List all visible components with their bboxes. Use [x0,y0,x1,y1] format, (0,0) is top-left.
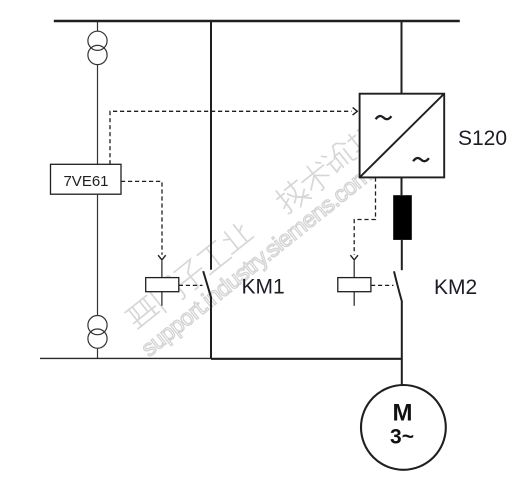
wire KM1 to bottom bus [210,297,212,359]
wire T1 to 7VE61 [97,65,99,165]
bus bottom left (thin) [40,357,211,359]
motor M1 circle [361,385,446,470]
svg-text:M: M [393,400,413,427]
converter diagonal [360,94,445,178]
wire feeder KM1 branch [210,22,212,270]
svg-text:KM1: KM1 [242,276,285,299]
svg-text:3~: 3~ [390,426,414,449]
wire reactor to KM2 [401,240,403,270]
bus bottom right (thick) [211,358,403,360]
arrow onto KM2 coil [350,255,358,260]
wire feeder drop to transformer T1 [97,22,99,32]
relay 7VE61 box [51,164,122,194]
svg-text:support.industry.siemens.com/c: support.industry.siemens.com/cs [136,144,398,361]
wire KM2 to motor [401,300,403,385]
wire arrow to coil KM2 [353,261,355,278]
converter S120 box [360,94,445,178]
svg-text:S120: S120 [458,127,507,150]
svg-text:7VE61: 7VE61 [63,173,108,190]
coil KM2 bottom lead [353,292,355,306]
coil KM1 bottom lead [161,292,163,306]
AC symbol top-left [376,116,392,119]
arrow onto KM1 coil [158,255,166,260]
coil KM2 box [338,278,371,292]
svg-text:KM2: KM2 [434,276,477,299]
transformer T1 (two overlapping circles) [88,31,107,50]
wire converter to reactor [401,177,403,195]
wire arrow to coil KM1 [161,261,163,278]
contactor contact KM1 (blade) [203,271,211,297]
wire 7VE61 to transformer T2 [97,194,99,315]
control wire dashed coil KM2 to blade [371,284,394,286]
wire T2 to bottom bus [97,348,99,358]
AC symbol bottom-right [413,158,429,161]
coil KM1 box [146,278,179,292]
control wire dashed coil KM1 to blade [179,284,203,286]
contactor contact KM2 (blade) [394,271,402,300]
control wire dashed 7VE61 to S120 [110,111,352,164]
watermark latin line support.industry.siemens.com/cs [136,144,398,361]
watermark chinese glyphs (hand drawn) [125,120,382,328]
control wire dashed 7VE61 to KM1 coil [121,181,162,254]
bus top [54,20,460,22]
control wire dashed S120 to KM2 coil [354,177,375,254]
arrow into S120 [353,108,358,116]
transformer T2 (two overlapping circles) [88,316,107,335]
wire feeder converter branch [401,22,403,94]
reactor choke (black rect) [393,195,412,240]
